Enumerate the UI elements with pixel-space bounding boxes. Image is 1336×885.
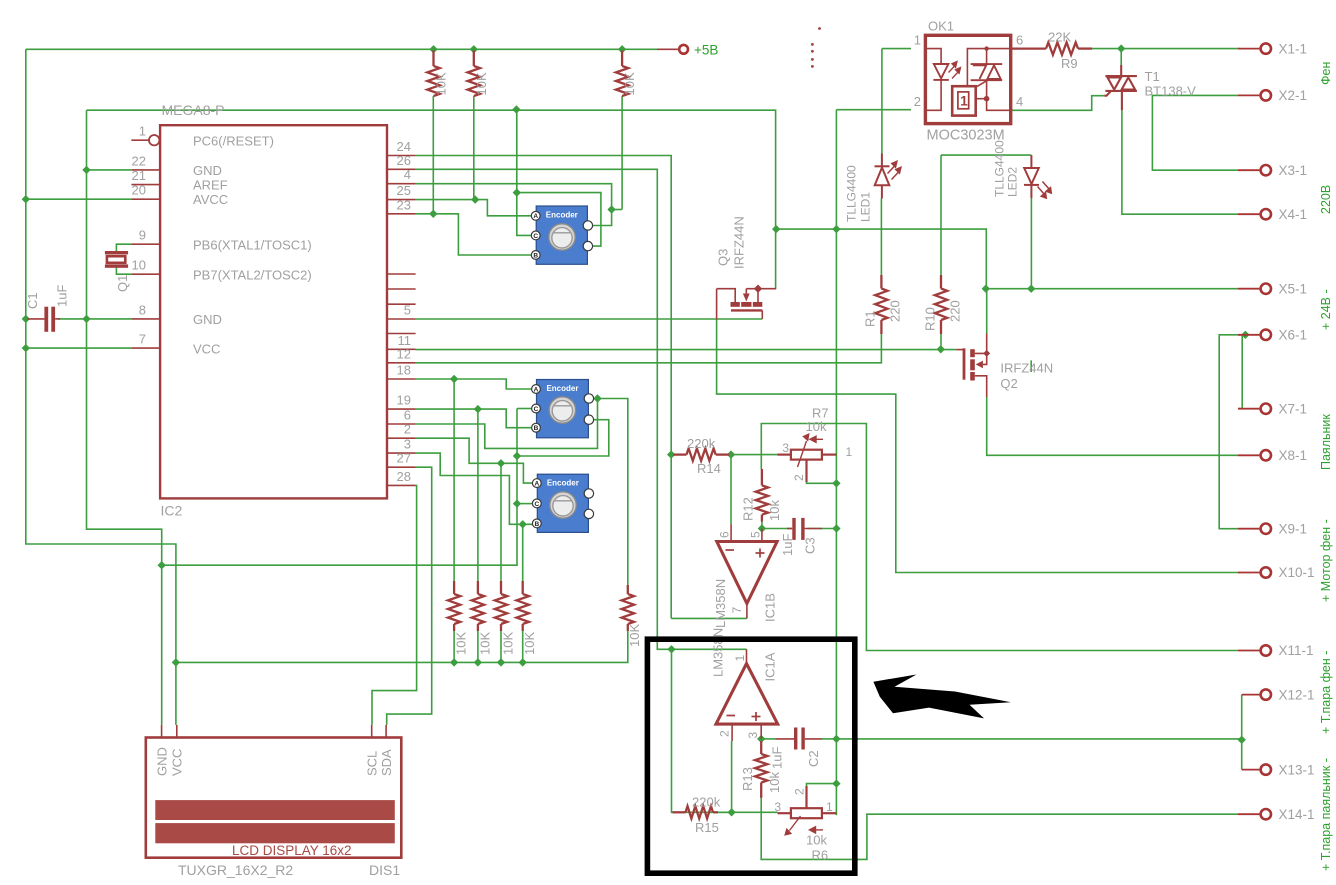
- svg-text:C: C: [534, 501, 539, 508]
- svg-text:1: 1: [914, 33, 921, 48]
- svg-text:TUXGR_16X2_R2: TUXGR_16X2_R2: [178, 862, 293, 878]
- svg-text:3: 3: [782, 441, 789, 455]
- svg-text:R15: R15: [695, 820, 719, 835]
- svg-text:Encoder: Encoder: [547, 479, 579, 488]
- svg-text:X9-1: X9-1: [1279, 521, 1308, 536]
- svg-text:LM358N: LM358N: [711, 628, 726, 677]
- svg-text:10K: 10K: [434, 72, 449, 95]
- svg-text:2: 2: [914, 94, 921, 109]
- svg-text:AREF: AREF: [193, 178, 228, 193]
- svg-text:28: 28: [397, 469, 411, 484]
- svg-text:B: B: [534, 521, 539, 528]
- svg-text:A: A: [534, 386, 539, 393]
- svg-text:2: 2: [792, 474, 806, 481]
- svg-text:5: 5: [749, 531, 763, 538]
- svg-text:10K: 10K: [627, 624, 642, 647]
- svg-text:12: 12: [397, 346, 411, 361]
- svg-text:C: C: [533, 233, 538, 240]
- svg-text:220: 220: [948, 300, 963, 322]
- svg-text:LED2: LED2: [1006, 167, 1020, 197]
- svg-text:LED1: LED1: [859, 192, 873, 222]
- svg-text:8: 8: [139, 302, 146, 317]
- svg-text:VCC: VCC: [193, 342, 220, 357]
- svg-text:R1: R1: [863, 310, 878, 327]
- svg-text:22K: 22K: [1048, 30, 1071, 45]
- svg-text:TLLG4400: TLLG4400: [845, 165, 859, 222]
- svg-text:25: 25: [397, 183, 411, 198]
- svg-text:X14-1: X14-1: [1279, 807, 1315, 822]
- svg-text:10k: 10k: [806, 419, 827, 434]
- svg-text:1: 1: [846, 445, 853, 459]
- svg-text:X1-1: X1-1: [1279, 41, 1308, 56]
- svg-text:GND: GND: [193, 312, 222, 327]
- svg-text:X3-1: X3-1: [1279, 163, 1308, 178]
- svg-text:10K: 10K: [477, 632, 492, 655]
- svg-text:OK1: OK1: [928, 19, 954, 34]
- svg-text:+ Т.пара фен -: + Т.пара фен -: [1319, 651, 1333, 734]
- svg-text:27: 27: [397, 451, 411, 466]
- svg-text:7: 7: [139, 332, 146, 347]
- svg-text:+ Мотор фен -: + Мотор фен -: [1319, 519, 1333, 602]
- svg-text:R6: R6: [812, 848, 829, 863]
- svg-text:3: 3: [404, 437, 411, 452]
- svg-text:1: 1: [960, 94, 968, 109]
- svg-text:10K: 10K: [454, 632, 469, 655]
- svg-text:DIS1: DIS1: [369, 862, 400, 878]
- svg-text:22: 22: [132, 153, 146, 168]
- svg-text:TLLG4400: TLLG4400: [993, 140, 1007, 197]
- svg-text:AVCC: AVCC: [193, 192, 228, 207]
- svg-text:BT138-V: BT138-V: [1145, 84, 1197, 99]
- svg-text:5: 5: [404, 303, 411, 318]
- svg-text:IC2: IC2: [161, 503, 183, 519]
- svg-text:220k: 220k: [692, 795, 721, 810]
- svg-text:GND: GND: [154, 747, 169, 776]
- svg-text:Q2: Q2: [1000, 376, 1017, 391]
- svg-text:10K: 10K: [622, 72, 637, 95]
- svg-text:Паяльник: Паяльник: [1319, 414, 1333, 470]
- svg-text:10K: 10K: [474, 72, 489, 95]
- svg-text:26: 26: [397, 153, 411, 168]
- svg-text:IC1A: IC1A: [763, 652, 778, 681]
- svg-text:VCC: VCC: [170, 749, 185, 776]
- svg-text:2: 2: [793, 788, 807, 795]
- svg-text:1uF: 1uF: [770, 747, 785, 769]
- svg-text:3: 3: [774, 800, 781, 814]
- svg-text:R10: R10: [923, 307, 938, 331]
- svg-text:X5-1: X5-1: [1279, 281, 1308, 296]
- svg-text:6: 6: [718, 531, 732, 538]
- svg-text:X6-1: X6-1: [1279, 328, 1308, 343]
- svg-text:IRFZ44N: IRFZ44N: [1000, 361, 1053, 376]
- svg-text:C2: C2: [806, 750, 821, 767]
- svg-text:24: 24: [397, 139, 411, 154]
- svg-text:9: 9: [139, 228, 146, 243]
- svg-text:20: 20: [132, 183, 146, 198]
- svg-text:1uF: 1uF: [780, 534, 795, 556]
- svg-text:6: 6: [1016, 33, 1023, 48]
- svg-text:1: 1: [139, 124, 146, 139]
- svg-text:B: B: [533, 252, 538, 259]
- svg-text:B: B: [534, 425, 539, 432]
- svg-text:PC6(/RESET): PC6(/RESET): [193, 134, 274, 149]
- svg-text:MEGA8-P: MEGA8-P: [162, 102, 225, 118]
- svg-text:220: 220: [888, 300, 903, 322]
- svg-text:10: 10: [132, 258, 146, 273]
- svg-text:3: 3: [746, 732, 760, 739]
- svg-text:IC1B: IC1B: [763, 593, 778, 622]
- svg-text:IRFZ44N: IRFZ44N: [732, 216, 747, 269]
- svg-text:7: 7: [730, 607, 744, 614]
- svg-text:2: 2: [404, 422, 411, 437]
- svg-text:Фен: Фен: [1319, 62, 1333, 85]
- svg-text:+5B: +5B: [694, 43, 718, 58]
- svg-text:A: A: [533, 213, 538, 220]
- svg-text:1: 1: [733, 655, 747, 662]
- svg-text:220k: 220k: [687, 436, 716, 451]
- svg-text:SCL: SCL: [365, 751, 380, 776]
- svg-text:PB7(XTAL2/TOSC2): PB7(XTAL2/TOSC2): [193, 268, 312, 283]
- svg-text:X13-1: X13-1: [1279, 762, 1315, 777]
- svg-text:LM358N: LM358N: [713, 579, 728, 628]
- svg-text:Q1: Q1: [115, 275, 130, 292]
- svg-text:X10-1: X10-1: [1279, 565, 1315, 580]
- svg-text:LCD DISPLAY 16x2: LCD DISPLAY 16x2: [232, 843, 352, 858]
- svg-text:6: 6: [404, 408, 411, 423]
- svg-text:1: 1: [826, 800, 833, 814]
- svg-text:GND: GND: [193, 163, 222, 178]
- svg-text:PB6(XTAL1/TOSC1): PB6(XTAL1/TOSC1): [193, 238, 312, 253]
- svg-text:R9: R9: [1061, 56, 1078, 71]
- svg-text:2: 2: [718, 730, 732, 737]
- svg-text:19: 19: [397, 393, 411, 408]
- svg-text:4: 4: [404, 167, 411, 182]
- svg-text:R14: R14: [697, 461, 721, 476]
- svg-text:C: C: [534, 406, 539, 413]
- svg-text:18: 18: [397, 363, 411, 378]
- svg-text:10K: 10K: [522, 632, 537, 655]
- svg-text:C1: C1: [25, 292, 40, 309]
- svg-text:R12: R12: [741, 497, 756, 521]
- svg-text:X11-1: X11-1: [1279, 643, 1314, 658]
- svg-text:Encoder: Encoder: [546, 384, 578, 393]
- svg-text:+ 24В -: + 24В -: [1319, 289, 1333, 330]
- svg-text:X7-1: X7-1: [1279, 401, 1308, 416]
- svg-text:A: A: [534, 481, 539, 488]
- svg-text:X4-1: X4-1: [1279, 207, 1308, 222]
- svg-text:C3: C3: [803, 537, 818, 554]
- svg-text:21: 21: [132, 168, 146, 183]
- svg-text:10k: 10k: [767, 772, 782, 793]
- svg-text:R13: R13: [740, 767, 755, 791]
- svg-text:SDA: SDA: [379, 749, 394, 776]
- svg-text:10k: 10k: [767, 500, 782, 521]
- svg-text:X8-1: X8-1: [1279, 448, 1308, 463]
- svg-text:T1: T1: [1145, 69, 1160, 84]
- svg-text:10k: 10k: [806, 833, 827, 848]
- svg-text:Q3: Q3: [716, 249, 731, 266]
- svg-text:4: 4: [1016, 94, 1023, 109]
- svg-text:X2-1: X2-1: [1279, 88, 1308, 103]
- svg-text:10K: 10K: [500, 632, 515, 655]
- svg-text:1uF: 1uF: [55, 285, 70, 307]
- svg-text:23: 23: [397, 197, 411, 212]
- svg-text:Encoder: Encoder: [546, 211, 578, 220]
- svg-text:+ Т.пара паяльник -: + Т.пара паяльник -: [1319, 758, 1333, 871]
- svg-text:220В: 220В: [1319, 185, 1333, 214]
- svg-text:X12-1: X12-1: [1279, 687, 1315, 702]
